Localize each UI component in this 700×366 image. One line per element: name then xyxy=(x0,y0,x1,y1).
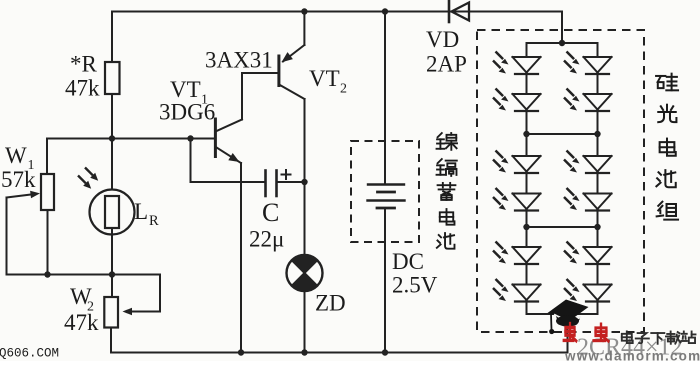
wire battery bottom xyxy=(384,208,386,353)
wire node to W2 top xyxy=(111,275,113,298)
transistor VT1 emitter with arrow xyxy=(217,148,242,164)
resistor *R 47k xyxy=(105,62,120,94)
photoresistor light arrows xyxy=(85,168,93,176)
svg-text:W: W xyxy=(5,143,27,168)
solar cell D1 xyxy=(493,52,541,75)
photoresistor LR inner body xyxy=(105,196,119,228)
wire capacitor to collector line xyxy=(278,181,305,183)
capacitor C 22u plates xyxy=(264,171,267,197)
junction dots xyxy=(301,8,307,14)
watermark graduation cap xyxy=(548,300,589,321)
wire top rail right drop into solar box xyxy=(561,12,563,44)
wire ZD to bottom rail xyxy=(304,291,306,353)
svg-text:*R: *R xyxy=(70,52,98,77)
label solar cell array (Chinese, vertical) xyxy=(656,74,678,91)
svg-text:L: L xyxy=(134,199,148,224)
svg-text:47k: 47k xyxy=(65,76,100,101)
wire from top rail down to R xyxy=(111,12,113,63)
diode VD 2AP xyxy=(448,1,451,22)
svg-text:2.5V: 2.5V xyxy=(392,273,438,298)
wire VT1 collector to VT2 base xyxy=(242,72,278,74)
transistor VT1 3DG6 base bar xyxy=(214,119,217,157)
wire VT1 emitter down to bottom rail xyxy=(240,163,242,353)
wire down to W1 top xyxy=(46,139,48,175)
label NiCd battery (Chinese, vertical) xyxy=(437,133,457,150)
svg-text:22μ: 22μ xyxy=(249,227,284,252)
svg-text:VT: VT xyxy=(170,77,201,102)
watermark red chongchong xyxy=(564,324,577,341)
wire base node down to capacitor xyxy=(190,139,192,183)
wire solar bottom feed xyxy=(567,314,569,353)
dashed box: solar cell array enclosure xyxy=(477,30,644,332)
solar cell D2 xyxy=(493,89,541,112)
wire W1 bottom down to lower-left rail xyxy=(47,210,49,275)
potentiometer W2 47k body xyxy=(104,297,118,328)
watermark black site name xyxy=(622,331,633,343)
wire LR bottom to lower rail xyxy=(111,228,113,275)
potentiometer W1 57k body xyxy=(41,174,54,210)
wire W1 wiper left vertical xyxy=(6,198,8,275)
wire node down to photoresistor xyxy=(111,139,113,197)
photoresistor LR circle xyxy=(90,190,135,235)
wire lower-left horizontal rail xyxy=(7,274,161,276)
wire bottom rail xyxy=(111,352,568,354)
battery GB plates xyxy=(368,183,404,185)
svg-text:3DG6: 3DG6 xyxy=(159,100,215,125)
svg-text:3AX31: 3AX31 xyxy=(205,48,273,73)
solar cell D6 xyxy=(493,279,541,302)
transistor VT2 collector xyxy=(280,85,305,99)
lamp ZD xyxy=(287,255,323,291)
wire base horizontal rail xyxy=(47,138,215,140)
wire W2 bottom to ground rail xyxy=(110,328,112,353)
wire battery top xyxy=(384,12,386,185)
svg-text:DC: DC xyxy=(392,249,424,274)
svg-text:2: 2 xyxy=(340,82,347,97)
transistor VT2 emitter from top rail with arrow xyxy=(303,12,305,46)
transistor VT2 3AX31 base bar xyxy=(277,56,280,86)
svg-text:C: C xyxy=(262,198,279,227)
solar cell D10 xyxy=(564,188,612,211)
solar cell D7 xyxy=(564,52,612,75)
wire W2 wiper loop xyxy=(159,275,161,312)
svg-text:VD: VD xyxy=(426,27,459,52)
svg-text:ZD: ZD xyxy=(315,291,346,316)
solar cell D9 xyxy=(564,151,612,174)
capacitor polarity plus xyxy=(281,174,292,176)
solar cell D11 xyxy=(564,242,612,265)
transistor VT1 collector xyxy=(217,120,243,132)
W1 wiper arrow xyxy=(7,194,34,197)
solar cell D8 xyxy=(564,89,612,112)
dashed box: NiCd battery enclosure xyxy=(351,141,419,242)
svg-text:www.damorm.com: www.damorm.com xyxy=(564,349,700,362)
solar cell D12 xyxy=(564,279,612,302)
solar cell D3 xyxy=(493,151,541,174)
svg-text:2AP: 2AP xyxy=(426,52,467,77)
svg-text:57k: 57k xyxy=(1,167,36,192)
solar cell D4 xyxy=(493,188,541,211)
solar column wires xyxy=(526,43,528,57)
wire R bottom to base node xyxy=(111,94,113,139)
svg-text:VT: VT xyxy=(309,66,340,91)
svg-text:R: R xyxy=(149,213,159,229)
svg-text:Q606.COM: Q606.COM xyxy=(0,347,59,361)
svg-text:47k: 47k xyxy=(64,310,99,335)
solar cell D5 xyxy=(493,242,541,265)
wire top rail xyxy=(112,11,562,13)
wire VT2 collector down to lamp ZD xyxy=(304,99,306,255)
solar array cross connectors xyxy=(527,42,598,44)
